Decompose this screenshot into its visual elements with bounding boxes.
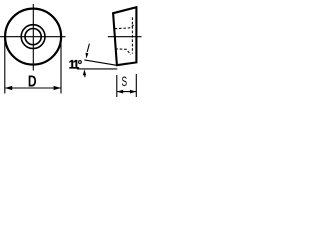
S dimension line bbox=[117, 91, 137, 93]
front view outer circle (insert diameter) bbox=[5, 9, 61, 65]
vertical centerline front view bbox=[32, 4, 34, 71]
hole circle bbox=[25, 28, 41, 44]
D dimension line bbox=[5, 87, 61, 89]
S extension line right bbox=[135, 74, 137, 97]
hidden countersink vertical line (dashed) bbox=[131, 17, 133, 53]
svg-text:S: S bbox=[122, 74, 128, 89]
D dimension arrow right bbox=[54, 86, 61, 90]
11 deg horizontal ray bbox=[77, 68, 118, 70]
side view outline bbox=[113, 7, 136, 65]
angle arrow pointing up to horizontal ray bbox=[83, 69, 86, 75]
11 deg slanted ray bbox=[84, 60, 117, 65]
svg-text:11°: 11° bbox=[69, 60, 83, 72]
D extension line right bbox=[60, 39, 62, 94]
hidden hole line top (dashed) bbox=[115, 25, 134, 29]
svg-text:D: D bbox=[28, 73, 37, 90]
angle arrow stem bbox=[84, 75, 86, 78]
S extension line left bbox=[116, 75, 118, 97]
D dimension arrow left bbox=[5, 86, 12, 90]
horizontal centerline front view bbox=[0, 36, 66, 38]
horizontal centerline side view bbox=[108, 36, 142, 38]
S dimension arrow left bbox=[117, 90, 123, 94]
hidden hole line bottom (dashed) bbox=[115, 49, 130, 55]
angle leader line upper bbox=[87, 44, 89, 52]
S dimension arrow right bbox=[130, 90, 136, 94]
chamfer circle bbox=[21, 25, 45, 49]
D extension line left bbox=[4, 39, 6, 94]
angle arrow pointing down to slanted ray bbox=[86, 53, 89, 59]
